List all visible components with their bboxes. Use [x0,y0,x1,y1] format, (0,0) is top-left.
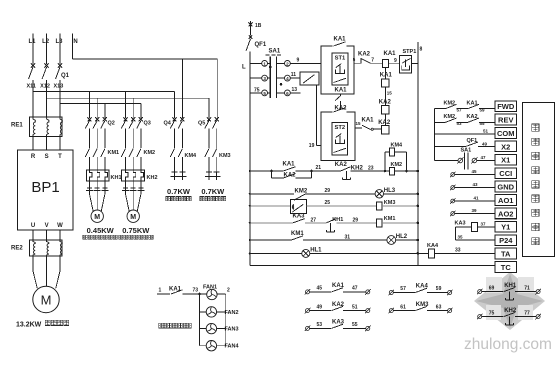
svg-text:KM2: KM2 [144,150,156,156]
svg-text:13.2KW: 13.2KW [16,322,42,329]
svg-text:L3: L3 [56,39,64,45]
svg-text:P24: P24 [499,236,513,245]
svg-text:KM1: KM1 [384,216,396,222]
lamp HL2 [387,236,396,245]
svg-text:AO1: AO1 [498,196,513,205]
svg-text:ST1: ST1 [335,56,346,62]
contactor KM1 contacts [85,149,89,157]
svg-text:19: 19 [309,143,315,149]
svg-text:69: 69 [489,285,495,291]
svg-text:ST2: ST2 [334,125,345,131]
svg-text:63: 63 [436,304,442,310]
svg-text:5: 5 [263,91,266,96]
svg-text:Q2: Q2 [108,121,115,127]
svg-text:35: 35 [458,234,464,239]
svg-text:KA2: KA2 [378,120,391,126]
heater 1 element [171,172,179,180]
fan FAN4 [200,345,207,347]
svg-text:29: 29 [325,188,331,194]
wire: N bus horizontal [72,58,217,60]
wire: N drop to Q5 [216,59,218,118]
svg-text:HL2: HL2 [396,234,408,240]
motor M2 [126,194,130,212]
svg-text:KA1: KA1 [384,51,397,57]
svg-text:KM2: KM2 [444,114,456,120]
svg-text:55: 55 [480,121,486,126]
breaker aux QF1 X2 row [435,145,467,147]
lamp HL3 [375,190,383,198]
relay coil KA1 second [384,68,386,79]
svg-text:V: V [45,223,49,229]
svg-text:47: 47 [481,155,487,160]
watermark logo [474,272,545,330]
wire: bottom return bus to TC [250,264,495,266]
svg-text:U: U [31,223,35,229]
svg-text:KH1: KH1 [332,217,343,223]
svg-text:75: 75 [489,310,495,316]
svg-text:0.7KW: 0.7KW [201,187,225,196]
wire: COM row [435,133,496,135]
contactor coil KM1 [376,219,382,227]
svg-text:KA2: KA2 [379,100,392,106]
svg-text:75: 75 [254,88,260,94]
relay contact KH2 spare [478,315,482,319]
breaker Q3 [123,117,127,121]
svg-text:KM1: KM1 [108,150,120,156]
svg-text:L2: L2 [42,39,50,45]
terminal strip chinese box [522,103,554,257]
svg-text:77: 77 [524,310,530,316]
relay coil KA2 [382,106,389,114]
reactor RE1 [30,117,63,137]
relay contact KA1 at ST2 out [362,125,371,129]
contactor coil KM2 [385,170,389,172]
relay contact KA2 row A parallel [271,171,273,178]
node 15 [384,87,386,105]
wire: row3 stub [290,92,300,94]
svg-text:45: 45 [472,169,478,174]
breaker Q4 [172,117,176,121]
wire: ST1 out [354,62,361,64]
svg-text:37: 37 [481,221,487,226]
wire: fan right riser [225,294,227,346]
wire: L1 L2 L3 N incoming lines [32,34,34,65]
svg-text:FWD: FWD [497,102,515,111]
svg-text:KM2: KM2 [295,189,308,195]
relay coil KA3 Y1 row [472,223,478,232]
svg-text:KA1: KA1 [283,161,296,167]
svg-text:KH2: KH2 [147,175,158,181]
wire: phase bus 3 [60,103,141,105]
wire: phase bus 2 [47,97,209,99]
svg-text:X11: X11 [27,84,36,90]
svg-text:QF1: QF1 [467,138,478,144]
svg-text:53: 53 [317,322,323,328]
svg-text:0.75KW: 0.75KW [122,226,150,235]
svg-text:STP1: STP1 [403,49,417,55]
limit switch box row2 [290,77,300,79]
inverter BP1 [18,150,74,230]
breaker QF1 [250,21,252,36]
relay contact KA3 spare [306,326,310,330]
svg-text:Q1: Q1 [61,73,70,79]
relay coil KA2 second [384,114,386,126]
selector SA1 aux X1 row [435,160,458,162]
wire: GND row [451,186,455,190]
svg-text:FAN2: FAN2 [225,310,239,316]
svg-text:QF1: QF1 [255,42,267,48]
wire: row C [250,205,291,207]
svg-text:7: 7 [371,57,374,63]
svg-text:KM4: KM4 [185,153,198,159]
svg-text:CCI: CCI [499,169,512,178]
svg-text:X1: X1 [501,156,510,165]
svg-text:2: 2 [227,288,230,294]
svg-text:X13: X13 [54,84,64,90]
contactor KM3 contacts [205,149,209,157]
relay contacts REV row [435,121,446,123]
svg-text:KA2: KA2 [332,302,345,308]
svg-text:X12: X12 [40,84,50,90]
svg-text:TC: TC [501,263,512,272]
svg-text:55: 55 [352,322,358,328]
svg-text:25: 25 [325,200,331,206]
wire: CCI row [451,173,455,177]
svg-text:KH1: KH1 [504,283,517,289]
float switch ST1 block [321,46,354,94]
svg-text:0.45KW: 0.45KW [87,226,115,235]
thermal relay KH2 [122,170,145,181]
pressure switch PRS row C [290,200,306,214]
svg-text:KA4: KA4 [427,243,439,249]
svg-text:Q3: Q3 [144,121,151,127]
svg-text:FAN4: FAN4 [225,344,240,350]
svg-text:KH1: KH1 [111,175,122,181]
svg-text:L1: L1 [29,39,37,45]
svg-text:31: 31 [345,234,351,240]
svg-text:KM2: KM2 [391,162,403,168]
wire: row A mid [311,170,340,172]
svg-text:KA3: KA3 [455,220,466,226]
svg-text:S: S [45,154,49,160]
heater 2 element [205,172,213,180]
svg-text:FAN3: FAN3 [225,327,239,333]
node fan chinese label [159,323,164,328]
lamp HL1 [302,249,310,257]
svg-text:KA1: KA1 [332,283,345,289]
svg-text:KA1: KA1 [362,117,375,123]
breaker Q2 [87,117,91,121]
svg-text:39: 39 [472,208,478,213]
wire: ST2 out node 15 [355,127,362,129]
svg-text:71: 71 [524,285,530,291]
breaker Q5 [207,117,211,121]
svg-text:GND: GND [497,183,514,192]
svg-text:KM2: KM2 [444,100,456,106]
svg-text:AO2: AO2 [498,209,513,218]
svg-text:53: 53 [457,121,463,126]
relay contact KA2 spare [306,309,310,313]
svg-text:KM3: KM3 [384,200,396,206]
wire: AO2 row [451,212,455,216]
svg-text:KA4: KA4 [416,284,429,290]
contactor coil KM3 [376,202,382,210]
relay contact KM2 row B [294,194,306,200]
relay contact KM3 spare [389,309,393,313]
svg-text:KM4: KM4 [391,142,404,148]
svg-text:RE1: RE1 [11,123,23,129]
wire: KA3 to P24 [455,226,471,228]
svg-text:Q5: Q5 [198,121,205,127]
svg-text:W: W [57,223,63,229]
svg-text:KM3: KM3 [416,302,429,308]
svg-text:29: 29 [353,217,359,223]
relay coil KA1 [383,59,389,67]
svg-text:51: 51 [352,304,358,310]
svg-text:73: 73 [193,288,199,294]
svg-text:Q4: Q4 [164,121,172,127]
svg-text:KA2: KA2 [284,172,297,178]
wire: AO1 row [451,199,455,203]
svg-text:M: M [41,293,52,308]
svg-text:0.7KW: 0.7KW [167,187,191,196]
svg-text:COM: COM [497,129,515,138]
svg-text:L: L [242,65,246,71]
svg-text:6: 6 [286,91,289,96]
svg-text:59: 59 [480,107,486,112]
contactor KM4 contacts [170,149,174,157]
svg-text:15: 15 [356,121,362,126]
relay contact KA1 row A [272,170,284,172]
contactor coil KM4 parallel [384,152,386,171]
svg-text:KA1: KA1 [467,100,478,106]
svg-text:45: 45 [317,286,323,292]
wire: left control bus [249,52,251,266]
svg-text:HL3: HL3 [384,188,396,194]
fan FAN3 [200,328,207,330]
relay contacts FWD row [435,108,446,110]
svg-text:KA3: KA3 [332,320,345,326]
svg-text:57: 57 [400,286,406,292]
thermal relay KH1 [86,170,109,181]
wire: strip left bus [434,109,436,161]
relay contact KA2 NC [360,58,362,63]
wire: row1 to ST1 [290,62,321,64]
svg-text:KA1: KA1 [380,73,393,79]
svg-text:41: 41 [474,195,480,200]
breaker Q1 [31,63,35,67]
motor M1 [90,194,94,212]
wire: N drop to Q4 [181,59,183,118]
node left bus junction dots [249,170,251,172]
wire: phase bus 1 [33,90,175,92]
svg-text:M: M [130,214,136,221]
svg-text:4: 4 [286,76,289,81]
float switch ST2 block [321,112,355,160]
svg-text:R: R [31,154,36,160]
relay contact KH1 spare [478,290,482,294]
svg-text:zhulong.com: zhulong.com [464,336,552,353]
thermal contact KH2 row A [341,167,351,171]
svg-text:KA1: KA1 [335,88,348,94]
relay contact KA1 spare [306,290,310,294]
svg-text:27: 27 [311,217,317,223]
svg-text:SA1: SA1 [269,49,281,55]
svg-text:59: 59 [436,286,442,292]
svg-text:49: 49 [317,304,323,310]
motor M2 terminals [125,181,127,188]
fan FAN2 [200,311,207,313]
svg-text:REV: REV [498,116,513,125]
svg-text:BP1: BP1 [31,179,59,196]
node top terminal 1B [249,23,253,27]
svg-text:1B: 1B [255,23,262,29]
svg-text:15: 15 [387,91,393,96]
svg-text:KA2: KA2 [358,52,371,58]
fan FAN1 [198,293,201,296]
reactor RE2 [32,230,34,242]
relay contact KA3 row D [293,219,305,223]
svg-text:57: 57 [457,107,463,112]
wire: bus drops to Q3 [125,91,127,118]
svg-text:47: 47 [352,286,358,292]
svg-text:Y1: Y1 [501,223,510,232]
svg-text:T: T [58,154,62,160]
svg-text:KH2: KH2 [351,165,364,171]
svg-text:23: 23 [368,165,374,171]
svg-text:1: 1 [263,61,266,66]
wire: row F [250,252,302,254]
wire: fan feed [157,293,170,295]
svg-text:21: 21 [316,165,322,171]
wire: row B [250,193,294,195]
relay contact KM1 row E [292,236,304,240]
relay coil KA4 [418,252,428,254]
svg-text:KH2: KH2 [504,308,517,314]
svg-text:KA1: KA1 [334,37,347,43]
svg-text:43: 43 [473,182,479,187]
svg-text:33: 33 [455,248,461,254]
motor M1 terminals [89,181,91,188]
wire: drop from limit box to ST2 [315,85,317,146]
svg-text:1: 1 [159,288,162,294]
wire: row D [250,222,293,224]
svg-text:61: 61 [400,304,406,310]
wire: right control bus [417,42,419,265]
svg-text:N: N [73,39,77,45]
svg-text:KA2: KA2 [335,162,348,168]
svg-text:X2: X2 [501,142,510,151]
svg-text:49: 49 [482,141,488,146]
terminal strip inverter [495,101,517,112]
svg-text:M: M [94,214,100,221]
pressure switch STP1 [400,56,412,74]
wire: bus drops to Q2 [89,91,91,118]
svg-text:51: 51 [483,128,489,133]
relay contact KA4 spare [389,291,393,295]
thermal contact KH1 row D [326,219,336,223]
svg-text:2: 2 [286,61,289,66]
relay contact KA1 vertical between blocks [340,94,342,96]
svg-text:KA2: KA2 [467,114,478,120]
svg-text:9: 9 [297,58,300,64]
svg-text:FAN1: FAN1 [203,285,217,291]
wire: row E [250,239,292,241]
motor M3 spindle [32,256,34,271]
svg-text:HL1: HL1 [310,248,322,254]
svg-text:3: 3 [263,76,266,81]
svg-text:KM1: KM1 [291,231,304,237]
svg-text:KM3: KM3 [219,153,231,159]
svg-text:13: 13 [292,87,298,93]
svg-text:8: 8 [420,47,423,53]
wire: fan left riser [199,294,201,346]
svg-text:KA1: KA1 [169,287,182,293]
contactor KM2 contacts [121,149,125,157]
svg-text:KA3: KA3 [293,213,306,219]
svg-text:TA: TA [501,250,511,259]
wire: row A start [250,170,272,172]
svg-text:RE2: RE2 [11,246,23,252]
svg-text:SA1: SA1 [461,148,472,154]
svg-text:11: 11 [291,72,297,78]
relay contact KA1 fan [171,290,183,294]
